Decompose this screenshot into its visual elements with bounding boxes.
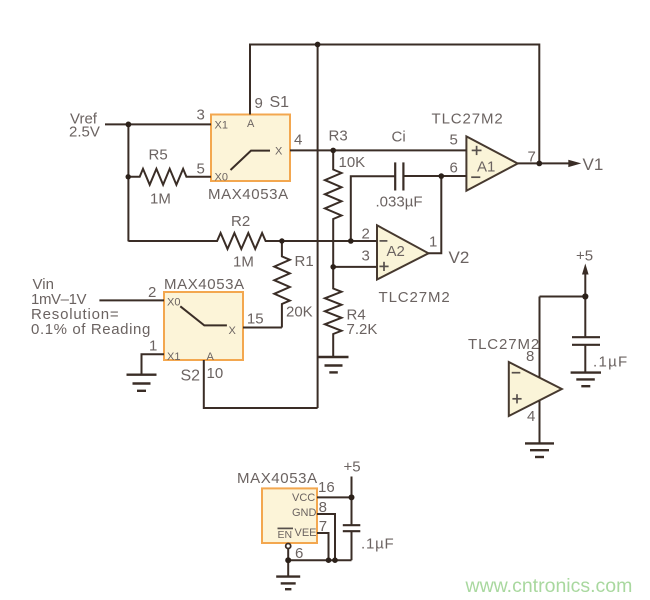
svg-text:3: 3 [197, 107, 205, 124]
svg-text:EN: EN [278, 529, 293, 541]
svg-text:7: 7 [319, 518, 327, 535]
svg-text:7: 7 [528, 149, 536, 166]
svg-text:0.1% of Reading: 0.1% of Reading [31, 321, 151, 338]
svg-text:1: 1 [149, 338, 157, 355]
svg-text:V2: V2 [449, 248, 470, 267]
svg-text:10K: 10K [339, 154, 366, 171]
svg-text:X0: X0 [215, 172, 228, 184]
svg-text:MAX4053A: MAX4053A [164, 276, 245, 293]
svg-text:R2: R2 [231, 213, 250, 230]
svg-text:20K: 20K [286, 304, 313, 321]
svg-text:7.2K: 7.2K [347, 321, 378, 338]
svg-text:+5: +5 [344, 459, 361, 476]
svg-text:+5: +5 [576, 247, 593, 264]
svg-text:9: 9 [255, 95, 263, 112]
svg-text:15: 15 [247, 310, 264, 327]
svg-text:5: 5 [197, 160, 205, 177]
svg-text:A: A [207, 351, 215, 363]
svg-text:R5: R5 [149, 146, 168, 163]
svg-text:VCC: VCC [292, 492, 315, 504]
svg-text:X0: X0 [167, 297, 180, 309]
svg-text:.1µF: .1µF [593, 354, 629, 371]
svg-text:1: 1 [429, 233, 437, 250]
svg-text:A2: A2 [387, 243, 405, 260]
svg-text:R1: R1 [295, 253, 314, 270]
svg-text:R3: R3 [329, 128, 348, 145]
svg-text:www.cntronics.com: www.cntronics.com [465, 575, 633, 597]
svg-text:X: X [275, 146, 283, 158]
svg-text:X: X [229, 325, 237, 337]
svg-text:1M: 1M [233, 254, 254, 271]
svg-text:2: 2 [362, 226, 370, 243]
svg-text:GND: GND [292, 507, 317, 519]
svg-text:5: 5 [450, 132, 458, 149]
svg-text:MAX4053A: MAX4053A [237, 470, 318, 487]
svg-text:2: 2 [148, 284, 156, 301]
svg-text:.1µF: .1µF [361, 536, 395, 553]
svg-text:S1: S1 [270, 94, 290, 111]
svg-text:X1: X1 [215, 119, 228, 131]
svg-text:TLC27M2: TLC27M2 [432, 111, 504, 128]
svg-text:VEE: VEE [295, 527, 317, 539]
svg-text:.033µF: .033µF [376, 193, 423, 210]
svg-text:8: 8 [319, 499, 327, 516]
svg-text:X1: X1 [167, 351, 180, 363]
svg-text:6: 6 [295, 545, 303, 562]
svg-text:16: 16 [318, 479, 335, 496]
svg-text:TLC27M2: TLC27M2 [379, 289, 451, 306]
svg-text:8: 8 [526, 348, 534, 365]
svg-text:A: A [247, 118, 255, 130]
svg-text:3: 3 [362, 248, 370, 265]
svg-text:4: 4 [527, 408, 535, 425]
svg-text:4: 4 [294, 132, 302, 149]
svg-text:A1: A1 [477, 159, 495, 176]
svg-text:10: 10 [207, 365, 224, 382]
svg-text:2.5V: 2.5V [69, 124, 100, 141]
svg-text:MAX4053A: MAX4053A [208, 186, 289, 203]
svg-text:1M: 1M [150, 191, 171, 208]
svg-text:V1: V1 [583, 155, 604, 174]
svg-text:6: 6 [450, 159, 458, 176]
svg-text:Ci: Ci [392, 129, 406, 146]
svg-text:S2: S2 [181, 368, 201, 385]
